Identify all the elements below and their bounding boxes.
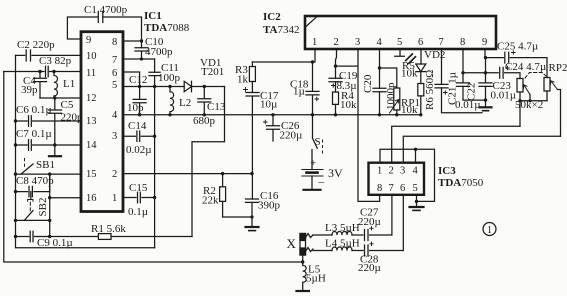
svg-text:680p: 680p bbox=[193, 115, 216, 127]
capacitor C13 bbox=[198, 87, 211, 115]
svg-text:0.1µ: 0.1µ bbox=[128, 206, 148, 218]
C28 label bbox=[358, 254, 381, 275]
C5 label bbox=[61, 99, 84, 124]
C22 label rotated bbox=[455, 83, 481, 111]
capacitor C5 bbox=[49, 98, 62, 156]
svg-text:L1: L1 bbox=[63, 78, 75, 90]
svg-text:10k: 10k bbox=[340, 99, 357, 111]
node R2 top bbox=[221, 172, 224, 175]
node C18 bus bbox=[311, 113, 314, 116]
R5 label bbox=[401, 60, 418, 80]
IC2 pin numbers 1-9 bbox=[312, 37, 487, 48]
C16 label bbox=[258, 190, 281, 212]
node C16 R2 joint bbox=[250, 215, 253, 218]
ground below C16 bbox=[246, 227, 259, 231]
potentiometer RP1 bbox=[390, 88, 400, 115]
svg-text:12: 12 bbox=[86, 93, 97, 104]
node R4 bus bbox=[334, 113, 337, 116]
VD2 label bbox=[424, 49, 445, 61]
diode VD1 bbox=[184, 81, 191, 91]
node C18 top bbox=[311, 60, 314, 63]
capacitor C6 bbox=[29, 116, 32, 126]
node C16 top bbox=[250, 172, 253, 175]
svg-text:IC3: IC3 bbox=[438, 165, 456, 177]
svg-text:1: 1 bbox=[312, 37, 317, 48]
capacitor C26 bbox=[264, 115, 280, 141]
svg-text:0.01µ: 0.01µ bbox=[455, 99, 481, 111]
capacitor C24 bbox=[500, 66, 510, 78]
antenna wire left loop bbox=[4, 72, 303, 263]
svg-text:8: 8 bbox=[460, 37, 465, 48]
wire pin10 line with C2 bbox=[16, 54, 82, 56]
capacitor C15 bbox=[138, 192, 141, 202]
capacitor C17 bbox=[244, 88, 260, 200]
svg-text:T201: T201 bbox=[201, 66, 224, 78]
node L2 top bbox=[168, 85, 171, 88]
C27 label bbox=[358, 207, 381, 229]
svg-text:1: 1 bbox=[377, 166, 382, 177]
svg-text:2: 2 bbox=[389, 166, 394, 177]
svg-text:10µ: 10µ bbox=[260, 99, 277, 111]
svg-text:1: 1 bbox=[487, 225, 492, 236]
svg-text:C6 0.1µ: C6 0.1µ bbox=[16, 104, 52, 116]
node pin4 joint bbox=[414, 148, 417, 151]
capacitor C14 bbox=[137, 131, 140, 141]
svg-text:−: − bbox=[318, 176, 325, 190]
svg-text:100p: 100p bbox=[158, 72, 181, 84]
capacitor C3 bbox=[46, 66, 49, 76]
capacitor C18 bbox=[306, 62, 319, 115]
svg-text:1k: 1k bbox=[237, 74, 249, 86]
svg-text:VD2: VD2 bbox=[424, 49, 445, 61]
X label bbox=[287, 236, 297, 251]
svg-text:C5: C5 bbox=[61, 99, 74, 111]
C13 label bbox=[193, 101, 226, 127]
C14 label bbox=[126, 120, 152, 156]
svg-text:C12: C12 bbox=[129, 74, 147, 86]
svg-text:R6 560Ω: R6 560Ω bbox=[424, 70, 436, 110]
node rail pin15 bbox=[14, 172, 17, 175]
svg-text:L2: L2 bbox=[179, 97, 191, 109]
C19 label bbox=[337, 70, 358, 92]
inductor L2 bbox=[170, 87, 174, 115]
node C13 top bbox=[203, 85, 206, 88]
switch S1 bbox=[312, 115, 323, 169]
svg-text:16: 16 bbox=[86, 193, 97, 204]
node R6 bus bbox=[419, 113, 422, 116]
C9 label bbox=[37, 237, 73, 249]
svg-text:RP2: RP2 bbox=[549, 62, 567, 74]
wire pin12 line bbox=[40, 97, 81, 99]
inductor L5 bbox=[303, 262, 306, 290]
svg-text:SB2: SB2 bbox=[37, 198, 49, 217]
wire L4 line bbox=[313, 250, 403, 252]
node pin8 bbox=[140, 39, 143, 42]
svg-text:3: 3 bbox=[112, 131, 117, 142]
svg-text:5µH: 5µH bbox=[306, 273, 326, 285]
wire pin3 line with C14 bbox=[123, 135, 155, 137]
IC2 label bbox=[263, 11, 299, 36]
IC1 pin numbers right 8-1 bbox=[112, 37, 118, 204]
wire pin4 supply bus bbox=[123, 114, 421, 116]
wire SB2 bottom line bbox=[16, 219, 50, 221]
inductor L1 bbox=[54, 72, 57, 99]
node L2 bus bbox=[168, 113, 171, 116]
node rail C9 bbox=[14, 235, 17, 238]
node C12 bus bbox=[138, 113, 141, 116]
wire pin8 stub bbox=[123, 40, 142, 42]
wire IC2 pin3 long audio line bbox=[358, 49, 380, 201]
svg-text:C14: C14 bbox=[128, 120, 147, 132]
C4 label bbox=[21, 75, 38, 96]
C8 label bbox=[16, 175, 54, 187]
node RP2a wiper joint bbox=[528, 99, 531, 102]
svg-text:7: 7 bbox=[439, 37, 444, 48]
svg-text:C3 82p: C3 82p bbox=[39, 55, 72, 67]
wire pin15 line bbox=[16, 173, 82, 175]
capacitor C1 bbox=[98, 12, 103, 23]
R1 label bbox=[91, 223, 126, 235]
node C20 bus bbox=[378, 113, 381, 116]
capacitor C2 bbox=[26, 50, 30, 61]
wire IC3 pin7 down bbox=[391, 195, 393, 235]
L4 label bbox=[325, 238, 360, 250]
svg-text:4: 4 bbox=[377, 37, 383, 48]
node RP1 bus bbox=[395, 113, 398, 116]
svg-text:C15: C15 bbox=[129, 182, 148, 194]
node pin9 C24 line cross bbox=[484, 71, 487, 74]
svg-text:14: 14 bbox=[86, 140, 97, 151]
potentiometer RP2b bbox=[544, 78, 561, 137]
SB1 label bbox=[36, 159, 55, 171]
node rail C6 bbox=[14, 119, 17, 122]
svg-text:X: X bbox=[287, 236, 297, 251]
C2 label bbox=[17, 39, 55, 51]
RP2 label 50k bbox=[515, 99, 543, 111]
svg-text:22k: 22k bbox=[202, 195, 219, 207]
svg-text:5: 5 bbox=[413, 183, 418, 194]
svg-text:8: 8 bbox=[112, 37, 117, 48]
svg-text:L3 5µH: L3 5µH bbox=[325, 222, 360, 234]
wire RP1 top link bbox=[380, 68, 397, 88]
C26 label bbox=[280, 120, 303, 142]
jack X body bbox=[300, 234, 306, 256]
svg-text:11: 11 bbox=[86, 68, 96, 79]
ground below C23 bbox=[480, 107, 492, 110]
svg-text:TDA7088: TDA7088 bbox=[144, 22, 190, 34]
RP1 label bbox=[401, 97, 420, 116]
svg-text:1000p: 1000p bbox=[385, 82, 397, 110]
svg-text:7: 7 bbox=[112, 55, 117, 66]
capacitor C28 bbox=[365, 242, 374, 256]
C24 label bbox=[505, 61, 567, 74]
svg-text:220µ: 220µ bbox=[280, 130, 303, 142]
wire pin6 drop bbox=[123, 72, 140, 87]
node C10 bottom bbox=[140, 57, 143, 60]
wire pin13 line with C6 bbox=[16, 120, 82, 122]
svg-text:C24 4.7µ: C24 4.7µ bbox=[505, 61, 546, 73]
node pin5 ground joint bbox=[415, 200, 418, 203]
ground below C5 bbox=[49, 155, 61, 157]
svg-text:15: 15 bbox=[86, 169, 97, 180]
wire L3 line bbox=[313, 234, 392, 236]
node rail C8 bbox=[14, 190, 17, 193]
IC2 TA7342 body bbox=[305, 16, 496, 49]
node C20 top R5 bbox=[378, 66, 381, 69]
capacitor C12 bbox=[133, 87, 146, 115]
svg-text:C25 4.7µ: C25 4.7µ bbox=[497, 41, 538, 53]
node SB2 line joint bbox=[48, 219, 51, 222]
svg-text:2: 2 bbox=[334, 37, 339, 48]
svg-text:1: 1 bbox=[112, 193, 117, 204]
R2 label bbox=[202, 185, 219, 207]
node pot bottom bbox=[518, 99, 521, 102]
wire IC2 pin5 bar bbox=[395, 49, 405, 56]
svg-text:C9 0.1µ: C9 0.1µ bbox=[37, 237, 73, 249]
node rail SB2 bbox=[14, 219, 17, 222]
C17 label bbox=[260, 90, 279, 111]
IC1 label bbox=[144, 10, 190, 34]
resistor R2 bbox=[220, 174, 226, 217]
ground IC3 bbox=[410, 201, 424, 210]
svg-text:L4 5µH: L4 5µH bbox=[325, 238, 360, 250]
svg-text:6: 6 bbox=[400, 183, 405, 194]
svg-text:5: 5 bbox=[112, 80, 117, 91]
C1 value label bbox=[84, 4, 128, 16]
svg-text:IC1: IC1 bbox=[144, 10, 162, 22]
wire pin11 line with C3 bbox=[4, 71, 81, 73]
svg-text:4700p: 4700p bbox=[145, 46, 173, 58]
node rail C7 bbox=[14, 143, 17, 146]
svg-text:6: 6 bbox=[418, 37, 423, 48]
R6 label rotated bbox=[424, 70, 436, 110]
C23 label bbox=[491, 80, 517, 102]
svg-text:C20: C20 bbox=[362, 74, 374, 93]
IC3 label bbox=[438, 165, 484, 189]
potentiometer RP2a bbox=[517, 79, 530, 101]
vertical pin7-C11-C15 line bbox=[154, 59, 156, 248]
node C4 top bbox=[38, 70, 41, 73]
svg-text:TA7342: TA7342 bbox=[263, 24, 299, 36]
inductor L4 bbox=[332, 247, 352, 250]
node pin16 joint bbox=[48, 196, 51, 199]
IC3 pin numbers bbox=[377, 166, 419, 195]
SB2 label rotated bbox=[37, 198, 49, 217]
node pin9 C25 bbox=[484, 56, 487, 59]
svg-text:220p: 220p bbox=[61, 112, 84, 124]
svg-text:5: 5 bbox=[397, 37, 402, 48]
svg-text:10k: 10k bbox=[401, 104, 418, 116]
svg-text:39p: 39p bbox=[21, 84, 38, 96]
inductor L3 bbox=[332, 232, 352, 235]
node C5 at pin14 line bbox=[53, 143, 56, 146]
svg-text:9: 9 bbox=[482, 37, 487, 48]
capacitor C22 bbox=[457, 83, 470, 87]
svg-text:220µ: 220µ bbox=[358, 216, 381, 228]
svg-text:C13: C13 bbox=[207, 101, 226, 113]
svg-text:R1 5.6k: R1 5.6k bbox=[91, 223, 126, 235]
wire IC2 pin6 VD2 branch bbox=[420, 49, 422, 115]
node pin16 drop C9 bbox=[48, 235, 51, 238]
svg-text:SB1: SB1 bbox=[36, 159, 55, 171]
wire C25 line bbox=[486, 58, 548, 78]
wire IC2 pin8 C22 branch bbox=[463, 49, 486, 100]
node C11 line bbox=[153, 85, 156, 88]
L3 label bbox=[325, 222, 360, 234]
svg-text:1µ: 1µ bbox=[293, 86, 305, 98]
C20 label rotated bbox=[362, 74, 397, 110]
resistor R4 bbox=[333, 92, 339, 104]
capacitor C7 bbox=[29, 140, 32, 150]
battery 3V bbox=[302, 170, 323, 190]
IC3 TDA7050 body bbox=[369, 163, 425, 195]
C15 label bbox=[128, 182, 148, 218]
wire IC3 pin2 line bbox=[392, 126, 520, 162]
capacitor C16 bbox=[246, 199, 259, 227]
L2 label bbox=[179, 97, 191, 109]
wire IC3 pin3 line bbox=[403, 136, 560, 162]
svg-text:C7 0.1µ: C7 0.1µ bbox=[16, 128, 52, 140]
battery labels bbox=[310, 158, 343, 190]
wire IC2 pin9 C23 branch bbox=[484, 49, 487, 107]
svg-text:7: 7 bbox=[389, 183, 394, 194]
wire pin2 line bbox=[123, 173, 252, 175]
wire IC2 pin4 C20 branch bbox=[379, 49, 381, 115]
svg-text:8: 8 bbox=[377, 183, 382, 194]
capacitor C20 bbox=[373, 88, 386, 92]
wire IC2 pin2 branch bbox=[336, 49, 358, 115]
capacitor C23 bbox=[479, 83, 492, 87]
node jack antenna bbox=[301, 260, 304, 263]
wire jack sleeve to antenna line bbox=[302, 255, 304, 262]
C25 label bbox=[497, 41, 538, 53]
svg-text:3V: 3V bbox=[328, 166, 343, 180]
node C22 ground joint bbox=[484, 98, 487, 101]
RP2 gang dashed link bbox=[525, 73, 546, 79]
jack plug prongs bbox=[306, 234, 314, 252]
S1 label bbox=[315, 136, 321, 148]
svg-text:9: 9 bbox=[86, 35, 91, 46]
svg-text:10: 10 bbox=[86, 51, 97, 62]
svg-text:C8 470p: C8 470p bbox=[16, 175, 54, 187]
wire C9 R1 line bbox=[16, 236, 193, 238]
wire pot bottoms bbox=[520, 101, 547, 127]
wire IC2 pin1 to R3 bbox=[252, 49, 315, 62]
node pin8 C24 joint bbox=[461, 71, 464, 74]
svg-text:10p: 10p bbox=[127, 102, 144, 114]
node pin6 drop bbox=[138, 85, 141, 88]
C6 label bbox=[16, 104, 52, 116]
node pin1 C15 joint bbox=[153, 196, 156, 199]
svg-text:0.01µ: 0.01µ bbox=[491, 90, 517, 102]
wire pin1 line with C15 bbox=[123, 197, 155, 199]
svg-text:220µ: 220µ bbox=[358, 262, 381, 274]
resistor R6 bbox=[418, 84, 424, 96]
R3 label bbox=[235, 64, 249, 86]
C18 label bbox=[290, 79, 309, 98]
svg-text:6: 6 bbox=[112, 68, 117, 79]
wire VD1 output L path bbox=[192, 87, 225, 237]
node C26 bus bbox=[271, 113, 274, 116]
VD1 label bbox=[200, 57, 224, 78]
wire C24 line bbox=[463, 73, 520, 79]
R4 label bbox=[340, 90, 357, 111]
circled figure number 1 bbox=[483, 223, 496, 237]
capacitor C9 bbox=[30, 231, 33, 241]
svg-text:3: 3 bbox=[355, 37, 360, 48]
svg-text:10k: 10k bbox=[401, 68, 418, 80]
svg-text:390p: 390p bbox=[258, 200, 281, 212]
capacitor C19 bbox=[329, 78, 342, 87]
svg-text:2: 2 bbox=[112, 169, 117, 180]
L1 label bbox=[63, 78, 75, 90]
svg-text:4: 4 bbox=[112, 110, 118, 121]
L5 label bbox=[306, 264, 326, 285]
wire pin16 to down rail bbox=[50, 174, 81, 236]
IC1 TDA7088 body bbox=[81, 32, 123, 212]
node L1 top bbox=[52, 70, 55, 73]
capacitor C11 bbox=[149, 72, 160, 75]
C21 label rotated bbox=[447, 72, 459, 105]
svg-text:S: S bbox=[315, 136, 321, 148]
capacitor C25 bbox=[505, 51, 515, 63]
svg-text:0.02µ: 0.02µ bbox=[126, 144, 152, 156]
capacitor C10 bbox=[135, 41, 148, 59]
capacitor C21 bbox=[435, 84, 448, 94]
C3 label bbox=[39, 55, 72, 67]
C11 label bbox=[158, 62, 181, 84]
capacitor C8 loop bbox=[16, 174, 50, 197]
node pin2 tick bbox=[334, 64, 337, 67]
wire IC3 pin1 pin4 ground wrap bbox=[380, 149, 435, 201]
node C8 branch right bbox=[48, 172, 51, 175]
wire IC3 pin6 down bbox=[402, 195, 404, 251]
C12 label bbox=[127, 74, 147, 114]
svg-text:TDA7050: TDA7050 bbox=[438, 177, 484, 189]
wire pin9 to C1 loop bbox=[67, 17, 141, 41]
svg-text:3: 3 bbox=[400, 166, 405, 177]
wire pin14 line with C7 bbox=[16, 144, 82, 146]
switch SB1 bbox=[21, 159, 33, 175]
node C14 joint bbox=[153, 135, 156, 138]
switch SB2 bbox=[24, 192, 33, 221]
svg-text:C2 220p: C2 220p bbox=[17, 39, 55, 51]
diode VD2 bbox=[416, 64, 426, 72]
svg-text:IC2: IC2 bbox=[263, 11, 281, 23]
ground below L5 bbox=[297, 290, 309, 292]
capacitor C27 bbox=[365, 227, 374, 241]
capacitor C4 bbox=[34, 72, 47, 99]
svg-text:13: 13 bbox=[86, 116, 97, 127]
C7 label bbox=[16, 128, 52, 140]
svg-text:4: 4 bbox=[413, 166, 419, 177]
resistor R5 arrows bbox=[406, 54, 416, 63]
svg-text:+: + bbox=[310, 158, 316, 170]
svg-text:C1 4700p: C1 4700p bbox=[84, 4, 128, 16]
rail left bus bbox=[16, 55, 155, 247]
wire pin7 line bbox=[123, 58, 155, 60]
C10 label bbox=[145, 36, 173, 58]
resistor R1 bbox=[98, 234, 111, 240]
resistor R3 bbox=[249, 62, 255, 93]
wire R2 bottom to C16 bbox=[223, 216, 252, 218]
node L1 bottom bbox=[53, 96, 56, 99]
node C13 bus bbox=[203, 113, 206, 116]
wire pin5 main line bbox=[123, 86, 225, 88]
IC1 pin numbers left 9-16 bbox=[86, 35, 97, 204]
wire IC2 pin7 C21 branch bbox=[442, 49, 483, 113]
